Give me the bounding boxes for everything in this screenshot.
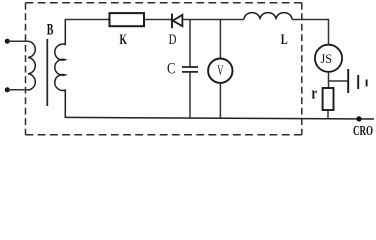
resistor r: [323, 88, 334, 110]
svg-text:D: D: [169, 32, 177, 48]
ground bar 1: [347, 69, 349, 93]
ground bar 3: [366, 80, 368, 87]
input terminal top: [5, 39, 10, 44]
wire K to diode: [144, 19, 172, 21]
CRO output node: [356, 116, 361, 121]
wire diode to inductor L: [182, 19, 244, 21]
capacitor C plates: [182, 66, 198, 68]
bottom wire: [65, 117, 374, 119]
dashed enclosure box right edge: [301, 3, 303, 135]
svg-text:JS: JS: [321, 51, 333, 66]
diode D cathode bar: [171, 14, 173, 29]
voltmeter V circle: [208, 58, 232, 82]
wire capacitor branch lower: [189, 72, 191, 118]
transformer B secondary winding: [55, 20, 65, 118]
wire JS to resistor r: [328, 72, 330, 88]
resistor K: [110, 13, 145, 26]
transformer core: [46, 39, 48, 106]
dashed enclosure box bottom edge: [26, 134, 302, 136]
wire terminal bottom to primary: [7, 89, 28, 91]
svg-text:CRO: CRO: [353, 124, 373, 139]
wire terminal top to primary: [7, 40, 28, 42]
svg-text:K: K: [120, 32, 128, 48]
wire secondary to resistor K: [65, 19, 110, 21]
svg-text:B: B: [47, 21, 54, 38]
wire capacitor branch upper: [189, 20, 191, 67]
wire L to right corner: [292, 19, 329, 21]
dashed enclosure box top edge: [26, 2, 302, 4]
transformer B primary winding: [28, 41, 35, 90]
wire to ground: [329, 80, 348, 82]
svg-text:C: C: [167, 60, 175, 77]
wire r to bottom: [327, 110, 329, 118]
svg-text:V: V: [217, 63, 224, 79]
diode D triangle: [173, 15, 183, 26]
meter JS circle: [315, 45, 342, 72]
dashed enclosure box left edge: [25, 3, 27, 135]
wire voltmeter branch upper: [219, 20, 221, 59]
ground bar 2: [357, 75, 359, 89]
inductor L: [244, 13, 292, 20]
svg-text:r: r: [311, 84, 317, 103]
wire corner down to JS: [328, 20, 330, 45]
svg-text:L: L: [281, 32, 288, 48]
input terminal bottom: [5, 87, 10, 92]
wire voltmeter branch lower: [219, 83, 221, 118]
